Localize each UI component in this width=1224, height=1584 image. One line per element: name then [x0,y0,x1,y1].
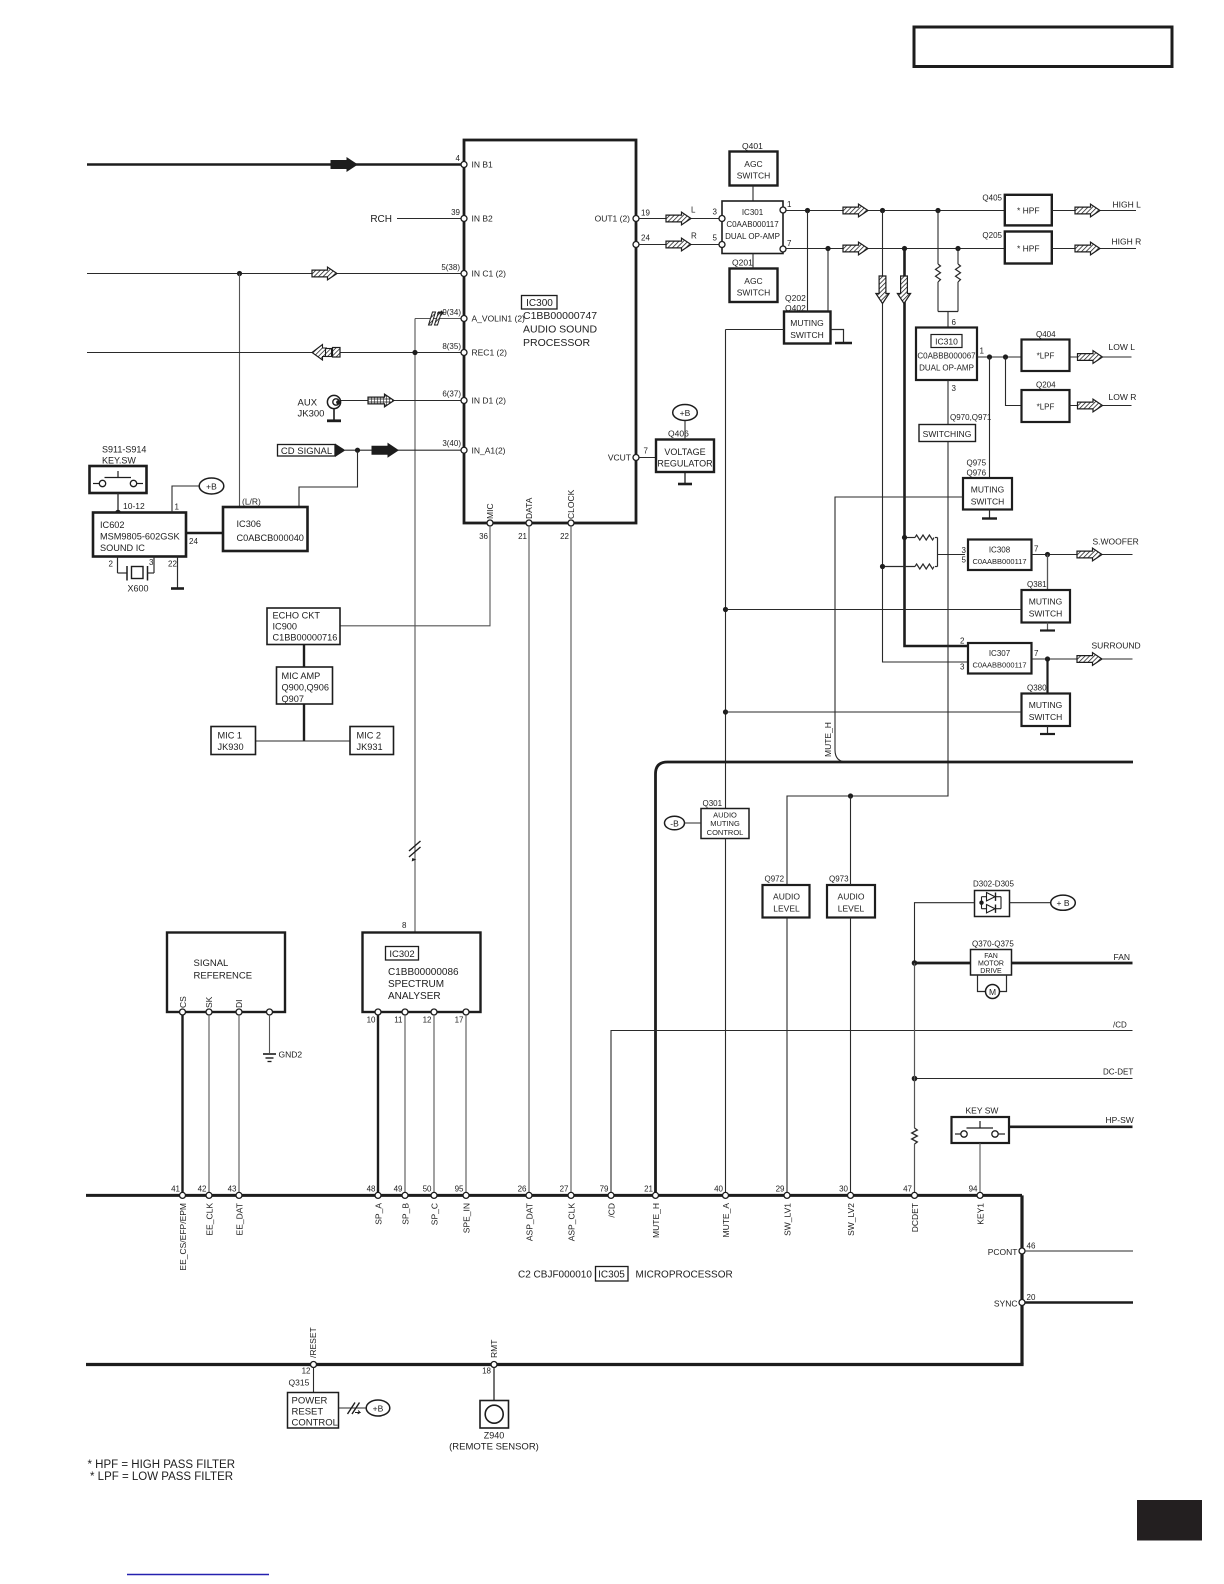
wire HIGH R output [1052,248,1136,250]
pin 8(35) REC1 (2) [461,350,467,356]
svg-text:3: 3 [713,208,718,217]
svg-text:(REMOTE SENSOR): (REMOTE SENSOR) [449,1442,539,1453]
svg-text:Q202: Q202 [785,293,806,303]
svg-text:*LPF: *LPF [1037,403,1055,412]
down arrow on x=882.5 wire [876,276,889,304]
svg-text:AGC: AGC [744,276,762,286]
wire DATA down to bus pin 26 [528,526,530,1195]
svg-text:IC302: IC302 [389,949,414,960]
svg-text:21: 21 [518,532,527,541]
svg-text:X600: X600 [128,584,149,594]
svg-text:EE_CS/EFP/EPM: EE_CS/EFP/EPM [178,1203,188,1271]
wire DC-DET [915,1078,1133,1080]
wire HIGH L output [1052,210,1136,212]
IC602 pin 24 wire to IC306 [186,532,223,534]
MUTE_H thick bus wire [656,762,1134,1195]
svg-text:SWITCHING: SWITCHING [923,429,972,439]
junction on CD SIGNAL wire [355,448,360,453]
wire HP-SW output [1009,1126,1133,1129]
pin 4 IN B1 [461,162,467,168]
svg-text:22: 22 [168,560,177,569]
wire muting switch left to MUTE_A vertical [726,329,785,331]
svg-text:IN B2: IN B2 [472,214,494,224]
svg-text:Q204: Q204 [1036,381,1056,390]
svg-text:SWITCH: SWITCH [737,171,771,181]
svg-text:C0ABBB000067: C0ABBB000067 [917,352,976,361]
wire ECHO CKT to MIC AMP [303,645,305,668]
svg-text:29: 29 [776,1184,785,1193]
wire OUT1 R to IC301 pin5 [639,244,719,246]
svg-text:Q972: Q972 [765,875,785,884]
svg-text:D302-D305: D302-D305 [973,880,1014,889]
svg-text:95: 95 [455,1184,464,1193]
svg-text:M: M [989,987,996,997]
wire IC301 to Q201 [752,254,754,269]
wire KEY SW down to bus pin 94 [979,1143,981,1195]
wire MIC AMP down to mic jacks [303,704,305,741]
svg-text:RESET: RESET [292,1407,324,1418]
svg-text:DATA: DATA [524,497,534,519]
svg-text:MSM9805-602GSK: MSM9805-602GSK [100,532,181,542]
svg-text:SP_C: SP_C [429,1203,439,1225]
svg-text:CLOCK: CLOCK [566,489,576,519]
wire key switch to IC602 pin 10-12 [117,493,119,513]
svg-text:8(35): 8(35) [442,342,461,351]
+B supply at diode pack [1010,895,1076,910]
MIC AMP box [277,667,333,704]
bus pin 27 ASP_CLK [568,1192,574,1198]
svg-text:IN_A1(2): IN_A1(2) [472,446,506,456]
svg-text:SP_A: SP_A [373,1203,383,1225]
svg-text:Q205: Q205 [982,231,1002,240]
svg-text:EE_DAT: EE_DAT [234,1203,244,1235]
grid arrow on AUX wire [368,394,394,407]
pin 39 IN B2 [461,216,467,222]
svg-text:Q975: Q975 [967,459,987,468]
svg-text:C0AABB000117: C0AABB000117 [972,557,1026,566]
svg-text:79: 79 [600,1184,609,1193]
svg-text:* LPF = LOW PASS FILTER: * LPF = LOW PASS FILTER [90,1471,233,1483]
svg-text:3(40): 3(40) [442,439,461,448]
Q380 muting switch [1046,659,1048,694]
svg-text:MUTING: MUTING [1029,700,1063,710]
junction on IN C1 [237,271,242,276]
svg-text:DUAL OP-AMP: DUAL OP-AMP [919,364,974,373]
svg-text:17: 17 [455,1016,464,1025]
svg-text:MICROPROCESSOR: MICROPROCESSOR [636,1270,733,1281]
bus pin 43 EE_DAT [236,1192,242,1198]
IC302 spectrum analyser [363,933,481,1013]
svg-text:12: 12 [302,1367,311,1376]
svg-text:IC300: IC300 [526,298,553,309]
svg-text:4: 4 [456,154,461,163]
IC300 reference label [522,296,558,310]
svg-text:ASP_CLK: ASP_CLK [566,1203,576,1242]
svg-text:CS: CS [178,996,188,1008]
svg-text:HIGH L: HIGH L [1113,200,1142,210]
svg-text:Q907: Q907 [282,694,304,704]
svg-text:30: 30 [839,1184,848,1193]
svg-text:JK300: JK300 [298,409,325,420]
svg-text:GND2: GND2 [279,1050,303,1060]
svg-text:MUTING: MUTING [710,819,740,828]
svg-text:SWITCH: SWITCH [737,288,771,298]
vertical thick wire from HIGH R junction to IC307 pin2 [905,249,969,647]
resistor pair to IC310 pin 6 [936,211,961,328]
svg-text:POWER: POWER [292,1396,328,1407]
svg-text:SK: SK [204,996,214,1008]
resistor pair into IC308 [880,535,965,569]
bus pin 50 SP_C [431,1192,437,1198]
svg-text:SW_LV1: SW_LV1 [782,1203,792,1236]
svg-text:+B: +B [373,1404,384,1414]
svg-text:KEY SW: KEY SW [966,1106,999,1116]
wire RCH to IN B2 [397,218,461,220]
svg-text:7: 7 [787,239,792,248]
bus pin 48 SP_A [375,1192,381,1198]
vertical wire from HIGH L junction to IC307 pin3 [883,211,969,663]
pin 7 VCUT [633,455,639,461]
MUTE_A vertical wire down to bus pin 40 [725,330,727,809]
vertical wire FAN junction down to bus pin 47 with resistor [912,963,918,1195]
svg-text:IN C1 (2): IN C1 (2) [472,269,507,279]
wire HIGH R from IC301 pin7 to Q205 HPF [786,248,1005,250]
svg-text:REFERENCE: REFERENCE [194,971,253,982]
pin 5(38) IN C1 (2) [461,271,467,277]
wire switching down and across to audio level [787,442,948,886]
svg-text:1: 1 [980,347,985,356]
wire IC310 pin1 junction down to Q975 muting switch [989,357,991,478]
svg-text:PROCESSOR: PROCESSOR [523,337,591,349]
svg-text:RCH: RCH [370,214,392,225]
wire CD SIGNAL to IN_A1 [345,449,461,451]
SIGNAL REFERENCE pins [180,1009,186,1015]
pin 46 PCONT [1019,1248,1025,1254]
svg-text:MUTING: MUTING [790,318,824,328]
svg-text:Z940: Z940 [484,1431,505,1441]
ground at Q975 muting switch [982,510,997,519]
twisted-pair flag on A_VOLIN1 [429,312,442,325]
bus pin 42 EE_CLK [206,1192,212,1198]
svg-text:10: 10 [367,1016,376,1025]
SIGNAL REFERENCE box [167,933,285,1013]
wire A_VOLIN1 [415,318,461,320]
svg-text:MOTOR: MOTOR [978,961,1004,968]
svg-text:REGULATOR: REGULATOR [657,459,713,469]
pin 21 DATA [526,520,532,526]
MIC 1 JK930 box [211,727,256,755]
svg-text:MIC 2: MIC 2 [357,731,382,741]
svg-text:Q404: Q404 [1036,330,1056,339]
wires signal reference to bus [181,1015,183,1195]
svg-text:MUTE_A: MUTE_A [721,1203,731,1238]
wire junction down through Q973 to bus pin 30 [850,796,852,885]
svg-text:* HPF = HIGH PASS FILTER: * HPF = HIGH PASS FILTER [88,1459,236,1471]
microprocessor bus top edge [86,1194,1022,1197]
svg-text:48: 48 [367,1184,376,1193]
svg-text:C2 CBJF000010: C2 CBJF000010 [518,1270,592,1281]
MIC 2 JK931 box [350,727,394,755]
svg-text:11: 11 [394,1016,403,1025]
svg-text:A_VOLIN1 (2): A_VOLIN1 (2) [472,314,526,324]
svg-text:IC306: IC306 [237,519,262,529]
bus pin 40 MUTE_A [723,1192,729,1198]
svg-text:C0ABCB000040: C0ABCB000040 [237,533,304,543]
svg-text:22: 22 [560,532,569,541]
svg-text:*LPF: *LPF [1037,352,1055,361]
wire RMT to Z940 [493,1368,495,1401]
svg-text:SOUND IC: SOUND IC [100,543,145,553]
IC602 pin 22 to ground [168,557,184,589]
svg-text:RMT: RMT [489,1340,499,1358]
wire AUX to IN D1 [341,400,461,402]
svg-text:R: R [691,232,697,241]
svg-text:IC305: IC305 [598,1270,625,1281]
wire to Q204 LPF [1006,357,1022,406]
svg-text:43: 43 [228,1184,237,1193]
svg-text:7: 7 [644,447,649,456]
svg-text:50: 50 [423,1184,432,1193]
bus pin 95 SPE_IN [463,1192,469,1198]
svg-text:24: 24 [189,537,198,546]
svg-text:* HPF: * HPF [1017,206,1040,216]
svg-text:Q380: Q380 [1027,684,1047,693]
black box bottom right [1137,1500,1202,1541]
svg-text:SP_B: SP_B [400,1203,410,1225]
svg-text:MUTE_H: MUTE_H [651,1203,661,1238]
ECHO CKT IC900 box [267,608,340,645]
down arrow on x=904.5 wire [897,276,910,304]
svg-text:27: 27 [560,1184,569,1193]
svg-text:26: 26 [518,1184,527,1193]
svg-text:1: 1 [175,503,180,512]
left arrow with squares on REC1 [312,345,340,361]
svg-text:Q370-Q375: Q370-Q375 [972,940,1014,949]
svg-text:/RESET: /RESET [308,1327,318,1358]
svg-text:DC-DET: DC-DET [1103,1068,1133,1077]
svg-text:C0AAB000117: C0AAB000117 [726,220,779,229]
svg-text:Q970,Q971: Q970,Q971 [950,413,992,422]
svg-text:JK930: JK930 [218,742,244,752]
wire LOW R output [1070,405,1132,407]
svg-text:DRIVE: DRIVE [980,968,1002,975]
wire MUTE_A junction to Q380 [726,711,1022,713]
-B supply at Q301 [665,816,702,830]
svg-text:/CD: /CD [606,1203,616,1218]
key switch S911-S914 box [90,466,147,493]
wire diode pack left and down to FAN junction [915,903,975,963]
svg-text:IN D1 (2): IN D1 (2) [472,396,507,406]
arrow on IN C1 wire [312,267,337,280]
svg-text:SYNC: SYNC [994,1299,1018,1309]
svg-text:SW_LV2: SW_LV2 [846,1203,856,1236]
svg-text:Q381: Q381 [1027,580,1047,589]
bus pin 41 EE_CS/EFP/EPM [180,1192,186,1198]
svg-text:9(34): 9(34) [442,308,461,317]
wire MUTE_A junction to Q381 [726,609,1022,611]
bus pin 47 DCDET [912,1192,918,1198]
bus pin 29 SW_LV1 [784,1192,790,1198]
svg-text:5: 5 [962,556,967,565]
title box (empty) top right [914,27,1172,67]
wire Q401 to IC301 [752,186,754,202]
svg-text:46: 46 [1027,1242,1036,1251]
svg-text:/CD: /CD [1113,1021,1127,1030]
svg-text:CONTROL: CONTROL [707,828,744,837]
pin 18 RMT [491,1362,497,1368]
svg-text:MIC 1: MIC 1 [218,731,243,741]
pin 20 SYNC [1019,1300,1025,1306]
svg-text:AUDIO SOUND: AUDIO SOUND [523,324,598,336]
bus pin 30 SW_LV2 [848,1192,854,1198]
svg-text:MUTING: MUTING [1029,597,1063,607]
pin 3(40) IN_A1(2) [461,447,467,453]
crystal X600 [109,557,154,594]
Q381 muting switch [1047,555,1049,591]
svg-text:C1BB00000747: C1BB00000747 [523,310,597,322]
IC310 pin 1 wire [977,356,1022,358]
svg-text:1: 1 [787,200,792,209]
svg-text:12: 12 [423,1016,432,1025]
pin 24 [633,242,639,248]
svg-text:C1BB00000086: C1BB00000086 [388,967,459,978]
svg-text:FAN: FAN [984,953,998,960]
svg-text:6(37): 6(37) [442,390,461,399]
svg-text:IC310: IC310 [935,337,958,347]
svg-text:7: 7 [1034,649,1039,658]
svg-text:ASP_DAT: ASP_DAT [524,1203,534,1241]
pin 36 MIC [487,520,493,526]
bus pin 79 /CD [608,1192,614,1198]
svg-text:42: 42 [198,1184,207,1193]
wire CLOCK down to bus pin 27 [570,526,572,1195]
pin 9(34) A_VOLIN1 (2) [461,316,467,322]
bus pin 94 KEY1 [977,1192,983,1198]
+B supply at power reset [366,1400,390,1416]
svg-text:SWITCH: SWITCH [790,330,824,340]
ground at Q381 [1040,623,1055,631]
ground at Q380 [1040,726,1055,734]
svg-text:ECHO CKT: ECHO CKT [273,611,321,621]
IC310 dual op-amp [916,328,977,381]
IC301 pin 7 [780,246,786,252]
svg-text:Q301: Q301 [703,799,723,808]
svg-text:2: 2 [960,637,965,646]
svg-text:47: 47 [903,1184,912,1193]
wire A_VOLIN1 vertical down to IC302 pin 8 [414,319,416,933]
IC301 pin 3 [719,216,725,222]
wire IN B1 [87,163,461,166]
IC301 pin 1 [780,207,786,213]
svg-text:SPECTRUM: SPECTRUM [388,979,444,990]
pin 19 OUT1 (2) [633,216,639,222]
junction REC1 x gray vertical [412,350,417,355]
FAN drive wire [915,962,1133,965]
svg-text:SWITCH: SWITCH [971,497,1005,507]
svg-text:KEY1: KEY1 [975,1203,985,1225]
IC300 audio sound processor main box [464,140,636,523]
svg-text:JK931: JK931 [357,742,383,752]
wire OUT1 L to IC301 pin3 [639,218,719,220]
svg-text:Q315: Q315 [289,1378,310,1388]
svg-text:MIC: MIC [485,503,495,519]
svg-text:6: 6 [952,318,957,327]
svg-text:Q976: Q976 [967,469,987,478]
wire power reset to +B with flag [339,1407,367,1409]
svg-text:Q405: Q405 [982,194,1002,203]
svg-text:(L/R): (L/R) [242,497,261,507]
svg-text:PCONT: PCONT [988,1247,1018,1257]
svg-text:3: 3 [952,384,957,393]
svg-text:DUAL OP-AMP: DUAL OP-AMP [725,232,780,241]
fan motor M [978,975,1007,999]
+B supply at IC602 [199,478,224,494]
svg-text:IC301: IC301 [742,208,764,217]
IC602 pin 1 wire to +B [172,486,199,513]
svg-text:MUTE_H: MUTE_H [823,722,833,757]
svg-text:Q900,Q906: Q900,Q906 [282,683,330,693]
svg-text:5: 5 [713,234,718,243]
svg-text:SPE_IN: SPE_IN [461,1203,471,1233]
svg-text:S911-S914: S911-S914 [102,445,146,455]
IC306 box [223,507,308,551]
svg-text:39: 39 [451,208,460,217]
wire HIGH L from IC301 pin1 to Q405 HPF [786,210,1005,212]
pin 22 CLOCK [568,520,574,526]
svg-text:MIC AMP: MIC AMP [282,671,321,681]
wire VCUT to voltage regulator [639,457,656,459]
IC602 sound IC box [93,513,186,557]
svg-text:LEVEL: LEVEL [773,904,800,914]
svg-text:3: 3 [962,546,967,555]
svg-text:ANALYSER: ANALYSER [388,991,441,1002]
CD SIGNAL flag label [278,444,346,458]
svg-text:SIGNAL: SIGNAL [194,958,229,969]
svg-text:CONTROL: CONTROL [292,1418,338,1429]
svg-text:VCUT: VCUT [608,453,631,463]
svg-text:41: 41 [171,1184,180,1193]
svg-text:Q406: Q406 [668,429,689,439]
IC310 pin 3 wire to switching [947,380,949,425]
svg-text:+B: +B [206,482,217,492]
svg-text:IC308: IC308 [989,546,1011,555]
svg-text:SURROUND: SURROUND [1092,641,1141,651]
GND2 ground [263,1015,302,1062]
svg-text:LOW L: LOW L [1109,342,1136,352]
twisted-pair flag on IC302 pin8 wire [409,841,421,862]
svg-text:MUTING: MUTING [971,485,1005,495]
svg-text:5(38): 5(38) [441,263,460,272]
svg-text:KEY.SW: KEY.SW [102,456,136,466]
svg-text:C1BB00000716: C1BB00000716 [273,633,338,643]
IC300 part number text [523,310,598,349]
svg-text:REC1 (2): REC1 (2) [472,348,508,358]
svg-text:3: 3 [960,663,965,672]
wire /CD [611,1031,1133,1196]
svg-text:IC307: IC307 [989,649,1011,658]
wire Q972 down to bus pin 29 [786,918,788,1196]
svg-text:* HPF: * HPF [1017,244,1040,254]
arrow on IN B1 wire [331,158,357,171]
IC301 pin 5 [719,242,725,248]
AUX JK300 jack [298,395,342,420]
svg-text:AUDIO: AUDIO [773,892,800,902]
pin 6(37) IN D1 (2) [461,398,467,404]
svg-text:LEVEL: LEVEL [838,904,865,914]
svg-text:OUT1 (2): OUT1 (2) [595,214,631,224]
svg-text:18: 18 [482,1367,491,1376]
Z940 remote sensor [480,1401,509,1429]
